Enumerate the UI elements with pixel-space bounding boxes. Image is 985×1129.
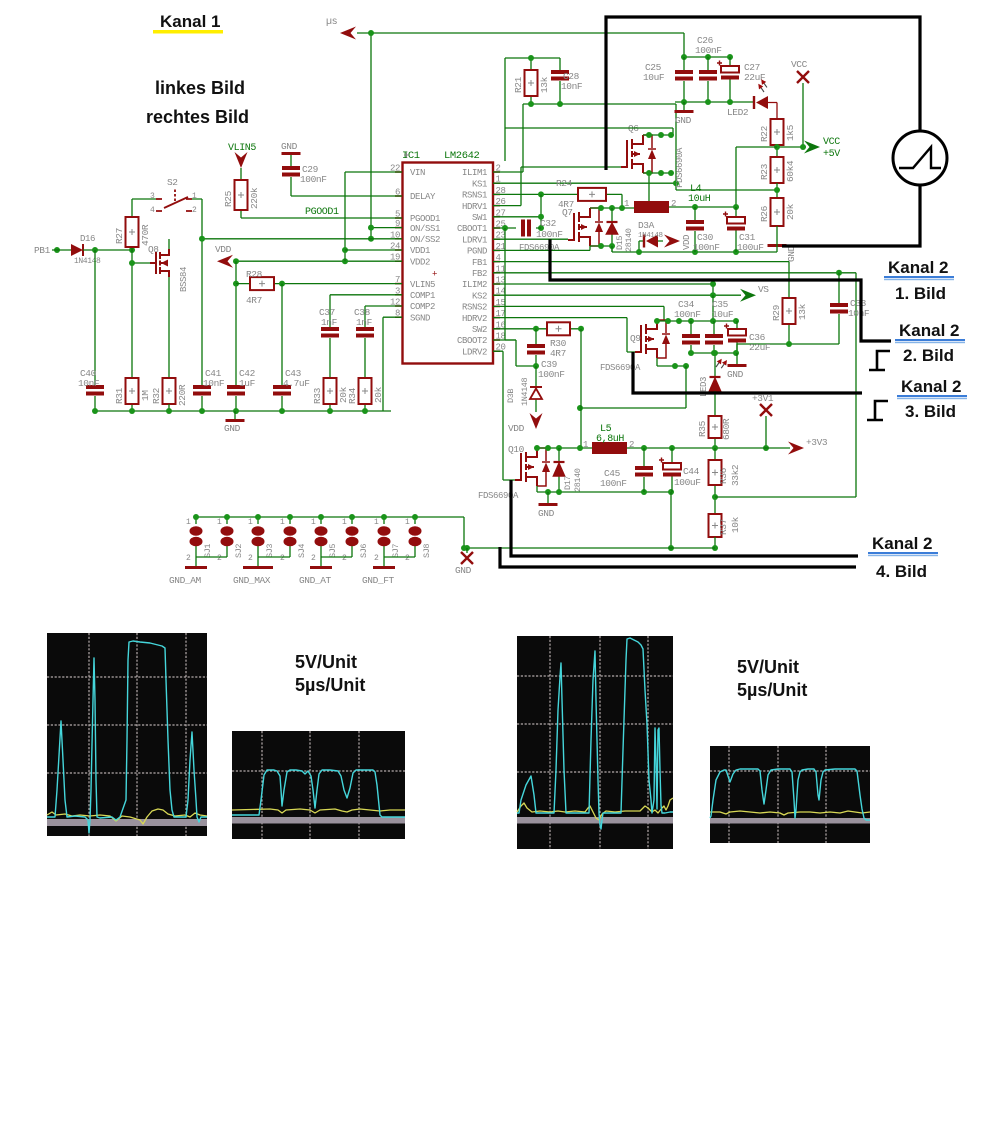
bottom gnd rail [95, 410, 391, 412]
svg-text:4. Bild: 4. Bild [876, 562, 927, 581]
net flag VDD right arrow [664, 235, 680, 248]
svg-text:1N4148: 1N4148 [520, 377, 530, 406]
resistor R24 4R7 [493, 194, 622, 207]
svg-text:1: 1 [280, 518, 285, 527]
jumper pair gnd 3 [321, 557, 352, 566]
scope A yellow trace [47, 809, 207, 824]
wire SGND down [383, 317, 402, 411]
svg-text:IC1: IC1 [402, 150, 420, 162]
svg-text:1M: 1M [140, 390, 151, 401]
svg-text:+3V1: +3V1 [752, 393, 774, 404]
capacitor C42 column [235, 261, 237, 411]
svg-text:5µs/Unit: 5µs/Unit [295, 675, 365, 695]
wire R22 bottom node [777, 145, 806, 157]
resistor R22 1k5 [771, 119, 784, 145]
svg-text:2: 2 [186, 554, 191, 563]
wire RSNS2 [493, 306, 664, 321]
svg-text:10uF: 10uF [712, 309, 734, 320]
wire PGND Q7 source [493, 246, 612, 250]
svg-text:3: 3 [150, 192, 155, 201]
wire CBOOT2 [493, 340, 536, 366]
probe line kanal2 bild4 signal [511, 480, 858, 556]
jumper pair gnd 4 [384, 557, 415, 566]
svg-text:R24: R24 [556, 178, 573, 189]
wire KS2 to VS [493, 294, 741, 296]
wire D16 to R27 and Q8 gate [83, 249, 132, 251]
inductor L4 [634, 201, 669, 213]
inductor L5 6.8uH [592, 442, 627, 454]
svg-text:10nF: 10nF [561, 81, 583, 92]
svg-text:6,8uH: 6,8uH [596, 434, 624, 445]
diode D15 [611, 208, 613, 252]
Q6 source node [643, 173, 671, 201]
svg-text:ON/SS2: ON/SS2 [410, 235, 440, 245]
svg-text:ILIM2: ILIM2 [462, 280, 487, 290]
svg-text:GND: GND [675, 115, 692, 126]
scope B yellow trace [232, 809, 405, 813]
svg-text:Q7: Q7 [562, 207, 573, 218]
svg-text:R22: R22 [759, 125, 770, 142]
svg-text:100nF: 100nF [600, 478, 627, 489]
svg-text:RSNS1: RSNS1 [462, 191, 487, 201]
svg-text:10uF: 10uF [643, 72, 665, 83]
svg-text:VDD: VDD [215, 244, 232, 255]
capacitor C39 100nF [535, 329, 537, 366]
svg-text:22uF: 22uF [749, 342, 771, 353]
svg-text:VDD1: VDD1 [410, 246, 430, 256]
svg-text:PGOOD1: PGOOD1 [410, 214, 440, 224]
capacitor C41 [193, 385, 211, 389]
svg-text:COMP1: COMP1 [410, 291, 435, 301]
wire HDRV2 to Q9 gate [493, 318, 635, 352]
svg-text:GND_MAX: GND_MAX [233, 575, 271, 586]
svg-text:100nF: 100nF [674, 309, 701, 320]
scope D gray baseline bar [710, 818, 870, 824]
switch S2 [132, 198, 160, 200]
probe line kanal2 bild1-2 [550, 239, 891, 341]
step symbol bild3 [867, 401, 888, 420]
step symbol bild2 [869, 351, 890, 370]
resistor R35 680R [714, 391, 716, 448]
svg-text:GND: GND [281, 141, 298, 152]
Q6 drain node [643, 134, 673, 136]
resistor R27 470R [131, 199, 133, 250]
svg-text:4.7uF: 4.7uF [283, 378, 310, 389]
ground symbol under C25 [683, 102, 685, 110]
svg-text:100nF: 100nF [536, 229, 563, 240]
svg-text:R27: R27 [114, 228, 125, 244]
svg-text:GND_AT: GND_AT [299, 575, 332, 586]
bottom rail channel1 [612, 244, 777, 252]
wire C44 gnd drop [670, 492, 672, 548]
resistor R32 220R [163, 378, 176, 404]
wire riser to ON/SS pins [371, 33, 402, 239]
diode D17 [558, 448, 560, 492]
svg-text:1: 1 [248, 518, 253, 527]
svg-text:5µs/Unit: 5µs/Unit [737, 680, 807, 700]
LED2 [753, 96, 755, 109]
jumper pair gnd 1 [196, 557, 227, 566]
svg-text:D17: D17 [563, 476, 573, 490]
svg-text:28140: 28140 [573, 468, 583, 492]
scope B gray baseline bar [232, 817, 405, 824]
svg-text:60k4: 60k4 [785, 160, 796, 182]
jumper top rail [196, 517, 464, 548]
svg-text:Kanal 2: Kanal 2 [901, 377, 961, 396]
wire SW1 [493, 216, 541, 218]
svg-text:CBOOT2: CBOOT2 [457, 336, 487, 346]
svg-text:D16: D16 [80, 234, 95, 244]
capacitor C34 100nF [690, 321, 692, 353]
capacitor C30 100nF [694, 207, 696, 252]
net flag VDD down arrow [530, 413, 543, 429]
svg-text:10nF: 10nF [78, 378, 100, 389]
svg-text:VDD: VDD [508, 423, 525, 434]
riser to cap bank2 [712, 295, 714, 321]
svg-text:SW2: SW2 [472, 325, 487, 335]
svg-text:D3A: D3A [638, 220, 655, 231]
svg-text:HDRV2: HDRV2 [462, 314, 487, 324]
scope C yellow trace [517, 798, 673, 820]
svg-text:C44: C44 [683, 466, 700, 477]
wire FB2 to divider [715, 496, 856, 498]
Q10 source rail [537, 486, 671, 492]
probe line kanal2 bild3 [633, 352, 862, 393]
Q7 drain node SW1 rail [590, 207, 634, 209]
Q10 drain node [537, 447, 592, 449]
scope C gray baseline bar [517, 817, 673, 824]
svg-text:GND: GND [224, 423, 241, 434]
svg-text:100nF: 100nF [693, 242, 720, 253]
svg-text:2: 2 [405, 554, 410, 563]
transistor Q10 FDS6690A [515, 448, 537, 486]
svg-text:13k: 13k [539, 76, 550, 93]
capacitor C37 and resistor R33 [330, 295, 402, 411]
svg-text:SJ1: SJ1 [203, 544, 213, 558]
svg-text:100nF: 100nF [538, 369, 565, 380]
oscilloscope screenshot A (Kanal1 linkes Bild) [47, 633, 207, 836]
wire LED2 to R22 [768, 103, 777, 120]
resistor R25 [241, 168, 402, 218]
svg-text:1: 1 [342, 518, 347, 527]
svg-text:S2: S2 [167, 177, 178, 188]
svg-text:COMP2: COMP2 [410, 302, 435, 312]
capacitor C35 10uF [713, 321, 715, 353]
ground under Q10 [547, 492, 549, 503]
resistor R23 60k4 [771, 157, 784, 183]
capacitor C28 10nF [559, 58, 561, 104]
svg-text:GND_FT: GND_FT [362, 575, 395, 586]
svg-text:rechtes Bild: rechtes Bild [146, 107, 249, 127]
scope A cyan trace [47, 641, 207, 833]
svg-text:FDS6690A: FDS6690A [478, 491, 519, 501]
svg-text:GND: GND [786, 245, 797, 262]
capacitor C26 100nF [707, 57, 709, 102]
svg-text:VIN: VIN [410, 168, 425, 178]
gnd x flag [466, 548, 468, 553]
resistor R37 10k [709, 514, 722, 537]
jumper pair gnd 2 [258, 557, 290, 566]
svg-text:2: 2 [280, 554, 285, 563]
svg-text:Kanal 1: Kanal 1 [160, 12, 220, 31]
solder jumper SJ8 [414, 517, 416, 557]
svg-text:4R7: 4R7 [246, 295, 262, 306]
svg-text:10nF: 10nF [203, 378, 225, 389]
svg-text:µs: µs [326, 17, 338, 28]
svg-text:220k: 220k [249, 187, 260, 209]
solder jumper SJ5 [320, 517, 322, 557]
svg-text:R28: R28 [246, 269, 263, 280]
transistor Q9 FDS6690A [635, 320, 657, 358]
svg-text:2: 2 [374, 554, 379, 563]
capacitor C27 22uF polarized [729, 57, 731, 102]
svg-text:PGOOD1: PGOOD1 [305, 207, 339, 218]
LED3 [714, 353, 716, 377]
svg-text:2: 2 [248, 554, 253, 563]
wire VIN rail down [683, 33, 685, 57]
cap bank2 top rail [657, 320, 737, 321]
svg-text:100uF: 100uF [674, 477, 701, 488]
solder jumper SJ2 [226, 517, 228, 557]
svg-text:HDRV1: HDRV1 [462, 202, 487, 212]
svg-text:20k: 20k [785, 203, 796, 220]
wire LDRV1 to Q7 gate [493, 238, 568, 240]
diode D3A [639, 241, 663, 252]
cap bank2 bottom rail [691, 352, 737, 354]
svg-text:Kanal 2: Kanal 2 [888, 258, 948, 277]
oscilloscope screenshot C (Kanal2 linkes Bild) [517, 636, 673, 849]
capacitor C38 and resistor R34 [365, 306, 402, 411]
wire VDD1 run [345, 249, 402, 251]
svg-text:R26: R26 [759, 205, 770, 222]
scope C cyan trace [517, 638, 673, 829]
svg-text:100nF: 100nF [300, 174, 327, 185]
svg-text:470R: 470R [140, 224, 151, 246]
Q9 source node [657, 358, 686, 366]
capacitor C36 22uF [736, 321, 738, 353]
wire VDD2 run [234, 260, 402, 262]
scope frame box [606, 17, 920, 170]
svg-text:Kanal 2: Kanal 2 [872, 534, 932, 553]
svg-text:1nF: 1nF [356, 317, 373, 328]
diode D3B 1N4148 [535, 366, 537, 412]
diode D16 1N4148 [71, 244, 83, 256]
svg-text:LED2: LED2 [727, 107, 749, 118]
svg-text:ILIM1: ILIM1 [462, 168, 487, 178]
op-amp IC1 LM2642 box [403, 163, 494, 364]
wire Q8 source to R32 [168, 239, 170, 378]
svg-text:FB1: FB1 [472, 258, 487, 268]
wire FB2 feedback run [493, 273, 856, 497]
capacitor C25 10uF [683, 57, 685, 102]
svg-text:FDS6690A: FDS6690A [519, 243, 560, 253]
svg-text:13k: 13k [797, 303, 808, 320]
ground symbol lower left [234, 411, 236, 419]
transistor Q6 FDS6690A [621, 135, 643, 173]
wire PB1 to D16 [52, 249, 71, 251]
svg-text:R35: R35 [697, 420, 708, 437]
svg-text:KS2: KS2 [472, 291, 487, 301]
output rail +3V3 [627, 447, 790, 449]
svg-text:R36: R36 [718, 467, 729, 484]
svg-text:C32: C32 [540, 218, 557, 229]
svg-text:100nF: 100nF [695, 45, 722, 56]
svg-text:1nF: 1nF [321, 317, 338, 328]
svg-text:R34: R34 [347, 387, 358, 404]
svg-text:LM2642: LM2642 [444, 150, 480, 162]
svg-text:KS1: KS1 [472, 179, 487, 189]
wire ILIM2 [493, 284, 713, 295]
oscilloscope screenshot D (Kanal2 rechtes Bild) [710, 746, 870, 843]
svg-text:+: + [432, 270, 437, 280]
capacitor C33 10nF [838, 273, 840, 344]
scope D yellow trace [710, 811, 870, 815]
svg-text:D3B: D3B [506, 389, 516, 403]
svg-text:SJ8: SJ8 [422, 544, 432, 558]
svg-text:Q8: Q8 [148, 244, 159, 255]
ground under C36 [736, 353, 738, 364]
cap bank top rail [684, 56, 730, 58]
resistor R31 1M [131, 263, 133, 411]
solder jumper SJ6 [351, 517, 353, 557]
svg-text:1: 1 [405, 518, 410, 527]
svg-text:1: 1 [311, 518, 316, 527]
wire LDRV2 to Q10 gate [493, 351, 515, 480]
wire Q9 source to L5 input [580, 366, 686, 408]
svg-text:4: 4 [150, 206, 155, 215]
svg-text:R37: R37 [718, 519, 729, 535]
svg-text:Kanal 2: Kanal 2 [899, 321, 959, 340]
svg-text:Q9: Q9 [630, 333, 641, 344]
net flag VCC +5V arrow [804, 141, 820, 154]
ground under R26 [776, 226, 778, 244]
svg-text:FDS6690A: FDS6690A [600, 363, 641, 373]
svg-text:GND_AM: GND_AM [169, 575, 202, 586]
svg-text:28140: 28140 [624, 228, 634, 252]
net flag VS arrow [740, 289, 756, 302]
svg-text:VS: VS [758, 284, 769, 295]
capacitor C44 100uF [671, 448, 673, 492]
svg-text:1: 1 [186, 518, 191, 527]
svg-text:PB1: PB1 [34, 245, 51, 256]
solder jumper SJ4 [289, 517, 291, 557]
wire HDRV1 to Q6 gate [493, 167, 621, 206]
svg-text:220R: 220R [177, 384, 188, 406]
riser KS1-CBOOT1 column [540, 194, 542, 228]
scope ground return line [782, 185, 920, 246]
svg-text:DELAY: DELAY [410, 192, 436, 202]
svg-text:+3V3: +3V3 [806, 437, 828, 448]
svg-text:FB2: FB2 [472, 269, 487, 279]
svg-text:1: 1 [583, 440, 588, 450]
wire ILIM1 to R21/C28 [493, 58, 676, 172]
scope D cyan trace [710, 769, 870, 820]
wire to switch node [736, 147, 777, 208]
wire KS1 run [493, 104, 777, 190]
svg-text:Q10: Q10 [508, 444, 525, 455]
resistor R36 33k2 [714, 448, 716, 514]
svg-text:1k5: 1k5 [785, 124, 796, 141]
resistor R21 13k [530, 58, 532, 104]
resistor R30 4R7 [493, 328, 581, 330]
svg-text:4R7: 4R7 [550, 348, 566, 359]
svg-text:1uF: 1uF [239, 378, 256, 389]
svg-text:2: 2 [629, 440, 634, 450]
svg-text:1: 1 [217, 518, 222, 527]
svg-text:R31: R31 [114, 387, 125, 404]
oscilloscope screenshot B (Kanal1 rechtes Bild) [232, 731, 405, 839]
transistor Q8 BSS84 [150, 249, 169, 277]
gnd rail to the right [464, 547, 715, 549]
svg-text:10k: 10k [730, 516, 741, 533]
svg-text:FDS6690A: FDS6690A [675, 147, 685, 188]
svg-text:10nF: 10nF [848, 308, 870, 319]
svg-text:1: 1 [374, 518, 379, 527]
svg-text:VDD: VDD [682, 235, 692, 250]
probe line kanal2 bild4 ground [500, 547, 856, 567]
svg-text:VDD2: VDD2 [410, 257, 430, 267]
svg-text:SJ3: SJ3 [265, 544, 275, 558]
resistor R26 20k [771, 198, 784, 226]
solder jumper SJ3 [257, 517, 259, 557]
svg-text:2: 2 [311, 554, 316, 563]
svg-text:GND: GND [727, 369, 744, 380]
svg-text:+5V: +5V [823, 149, 840, 160]
oscilloscope symbol circle [893, 131, 947, 185]
svg-text:10uH: 10uH [688, 194, 711, 205]
svg-text:R23: R23 [759, 163, 770, 180]
wire VIN branch to Q6 drain [505, 128, 673, 135]
svg-text:GND: GND [455, 565, 472, 576]
svg-text:LDRV2: LDRV2 [462, 347, 487, 357]
wire ON/SS2 run [202, 238, 402, 240]
svg-text:BSS84: BSS84 [179, 267, 189, 292]
svg-text:LDRV1: LDRV1 [462, 235, 487, 245]
svg-text:5V/Unit: 5V/Unit [737, 657, 799, 677]
capacitor C40 branch [94, 250, 96, 411]
svg-text:2: 2 [217, 554, 222, 563]
svg-text:680R: 680R [721, 418, 732, 440]
svg-text:R32: R32 [151, 387, 162, 404]
svg-text:R33: R33 [312, 387, 323, 404]
svg-text:SW1: SW1 [472, 213, 487, 223]
capacitor C29 [291, 155, 402, 196]
svg-text:ON/SS1: ON/SS1 [410, 224, 440, 234]
svg-text:100uF: 100uF [737, 242, 764, 253]
svg-text:VCC: VCC [823, 137, 840, 148]
wire VIN riser [345, 172, 402, 261]
scope B cyan trace [232, 770, 405, 817]
svg-text:R29: R29 [771, 304, 782, 321]
svg-text:1N4148: 1N4148 [638, 232, 663, 240]
wire SW node to output caps [669, 206, 736, 208]
capacitor C45 100nF [643, 448, 645, 492]
svg-text:5V/Unit: 5V/Unit [295, 652, 357, 672]
wire S2 to ON/SS and C41 column [192, 199, 202, 411]
svg-text:1N4148: 1N4148 [74, 257, 101, 266]
svg-text:1: 1 [624, 199, 629, 209]
svg-text:linkes Bild: linkes Bild [155, 78, 245, 98]
resistor R28 4R7 [236, 283, 402, 285]
net flag +3V3 arrow [788, 442, 804, 455]
svg-text:R21: R21 [513, 76, 524, 93]
riser CBOOT1 to CBOOT2 area [505, 228, 516, 340]
svg-text:SJ4: SJ4 [297, 544, 307, 558]
svg-text:33k2: 33k2 [730, 464, 741, 486]
svg-text:SGND: SGND [410, 313, 430, 323]
svg-text:VLIN5: VLIN5 [228, 143, 256, 154]
capacitor C31 100uF [735, 207, 737, 252]
